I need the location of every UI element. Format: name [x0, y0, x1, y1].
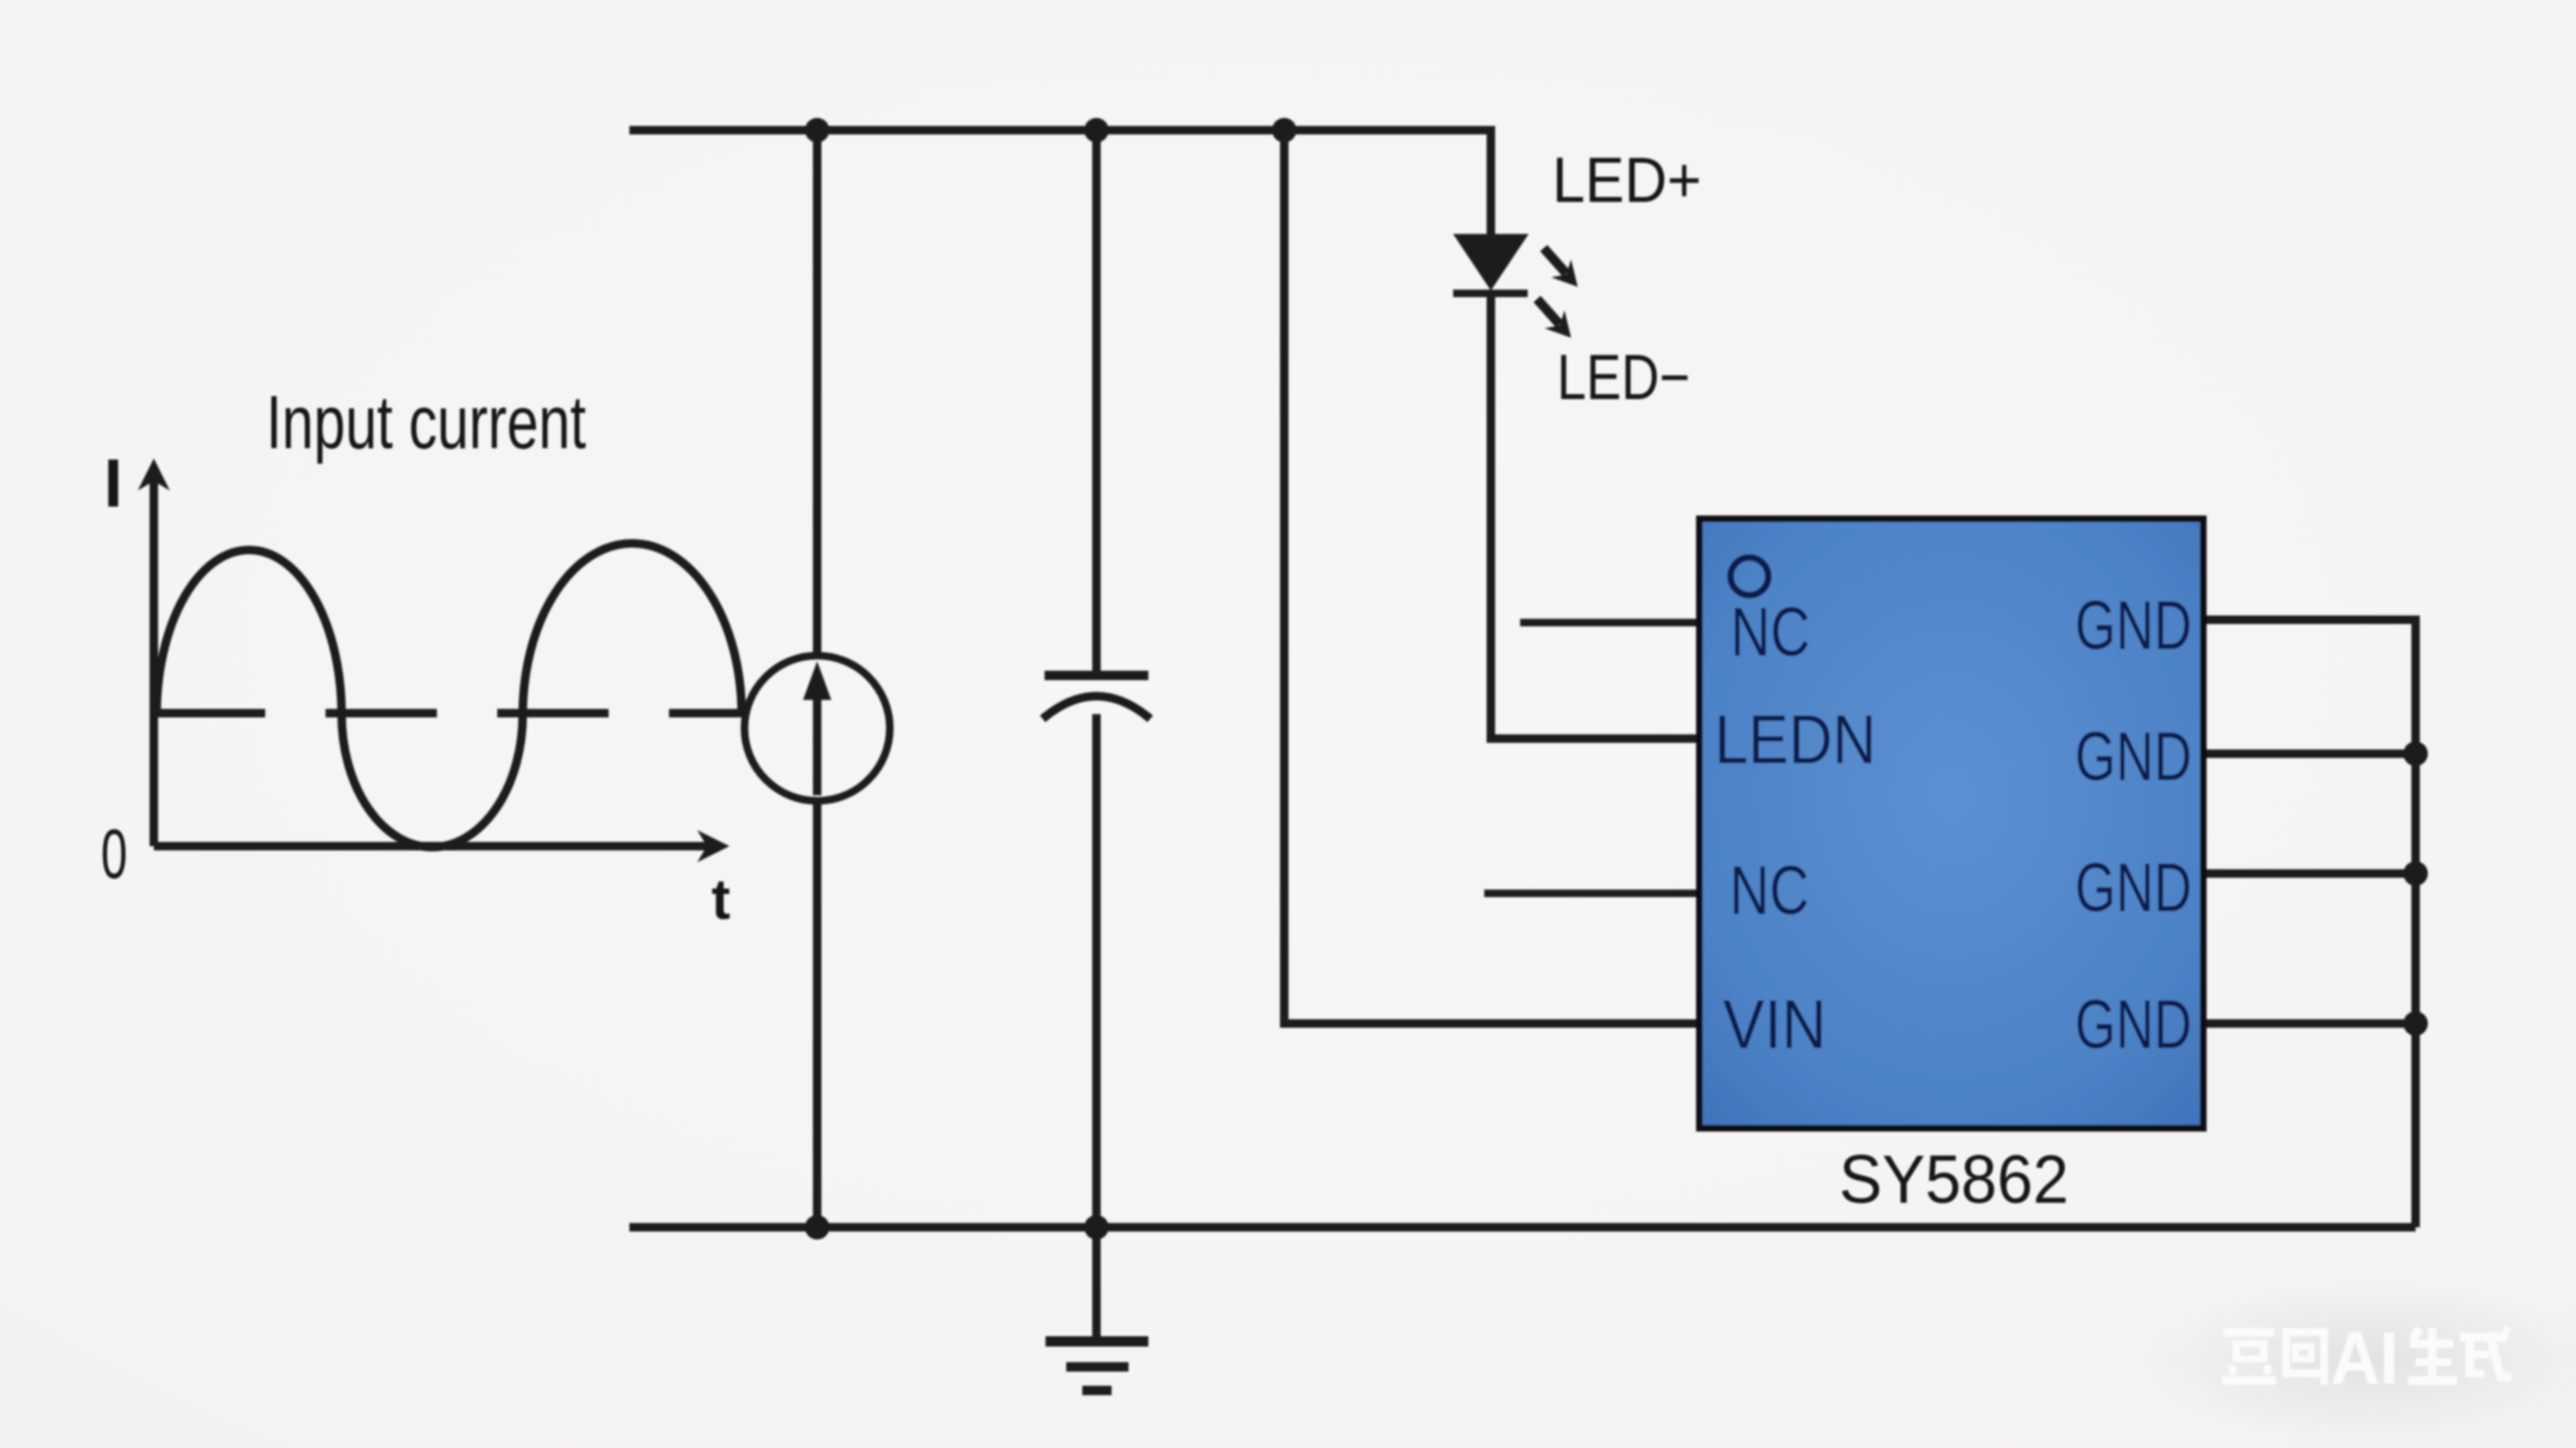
svg-text:NC: NC — [1731, 594, 1810, 672]
svg-text:Input current: Input current — [266, 381, 586, 465]
svg-text:I: I — [104, 446, 123, 522]
svg-text:LEDN: LEDN — [1715, 701, 1876, 778]
svg-text:GND: GND — [2075, 986, 2192, 1063]
svg-text:t: t — [711, 868, 730, 931]
svg-text:GND: GND — [2075, 718, 2192, 795]
svg-text:LED−: LED− — [1557, 342, 1690, 413]
svg-text:GND: GND — [2075, 587, 2192, 664]
svg-text:SY5862: SY5862 — [1839, 1140, 2068, 1217]
svg-text:VIN: VIN — [1723, 986, 1827, 1063]
svg-text:0: 0 — [101, 817, 127, 894]
svg-text:AI: AI — [2331, 1316, 2399, 1400]
svg-text:NC: NC — [1730, 853, 1809, 930]
svg-text:LED+: LED+ — [1552, 144, 1701, 216]
svg-text:GND: GND — [2075, 849, 2192, 926]
